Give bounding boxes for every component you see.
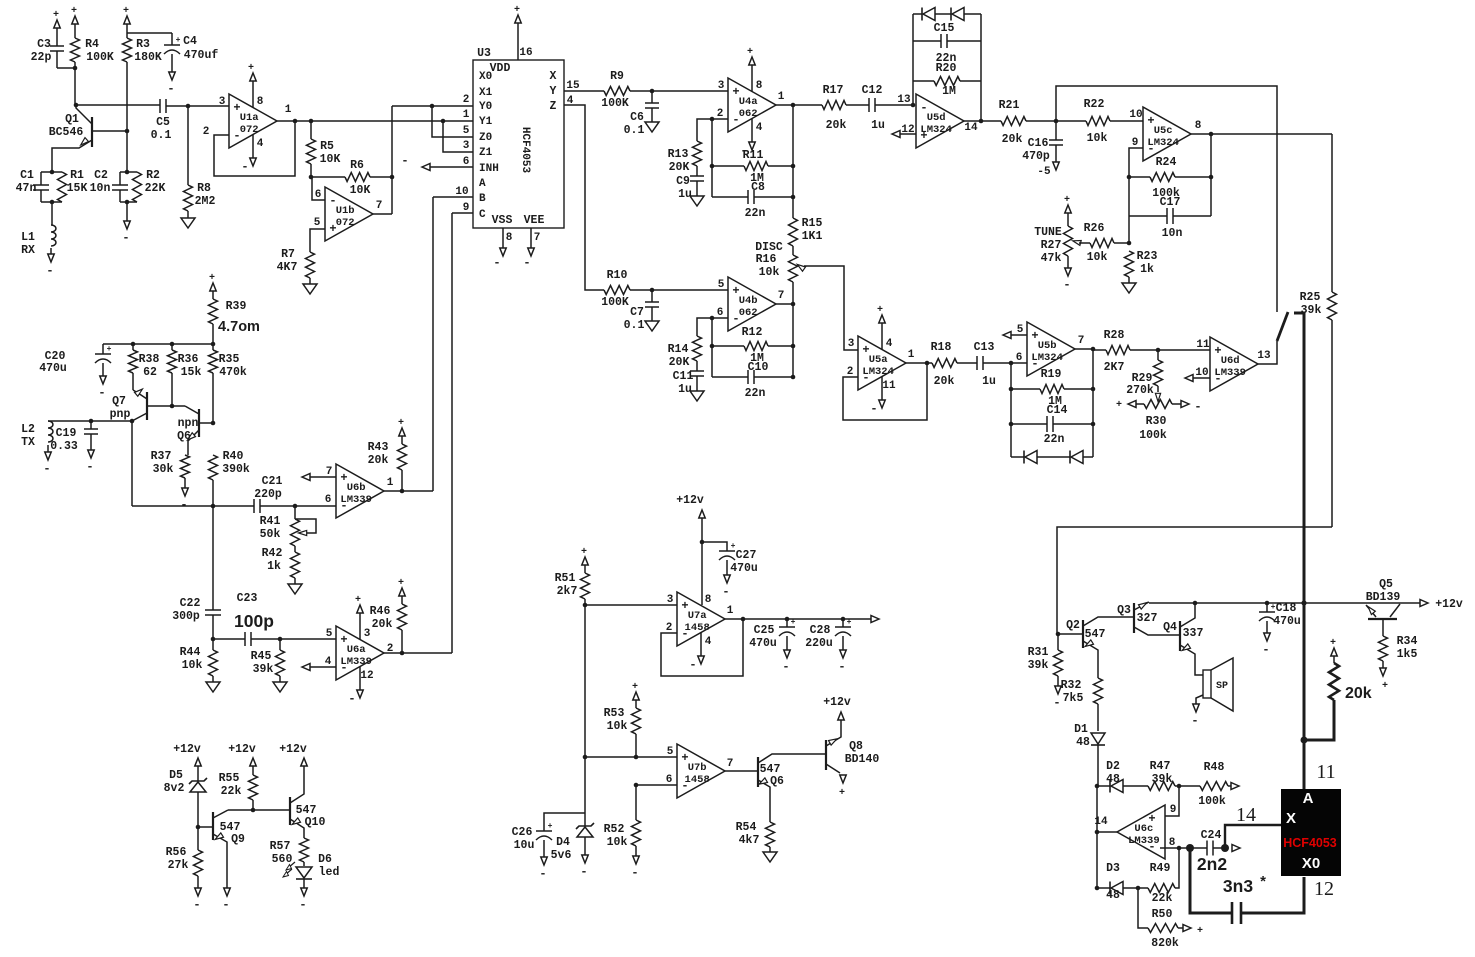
resistor R4	[72, 16, 78, 24]
svg-text:U6a: U6a	[347, 644, 367, 656]
svg-text:R39: R39	[226, 300, 247, 313]
svg-text:6: 6	[325, 494, 332, 506]
svg-text:3n3: 3n3	[1223, 876, 1253, 896]
resistor R38	[132, 344, 134, 350]
svg-text:-: -	[180, 498, 187, 512]
svg-text:7: 7	[1078, 335, 1085, 347]
transistor Q6 547	[757, 757, 759, 787]
wire Y1 line into U3	[443, 120, 473, 122]
svg-text:C19: C19	[56, 427, 77, 440]
wire U4a output column	[776, 104, 822, 106]
capacitor C9	[690, 175, 704, 177]
feedback box right	[980, 14, 982, 121]
diode D2	[1097, 785, 1110, 787]
svg-text:072: 072	[240, 124, 259, 136]
svg-text:+: +	[53, 10, 59, 21]
wire U7a feedback	[661, 619, 743, 676]
svg-text:14: 14	[1094, 816, 1108, 828]
svg-text:U5c: U5c	[1154, 125, 1173, 137]
svg-text:20K: 20K	[669, 161, 690, 174]
svg-text:R21: R21	[999, 99, 1020, 112]
svg-text:3: 3	[219, 96, 226, 108]
wire U5d output	[964, 120, 981, 122]
svg-text:1: 1	[285, 104, 292, 116]
svg-text:1458: 1458	[685, 622, 710, 634]
svg-text:470u: 470u	[730, 562, 758, 575]
capacitor C28	[842, 619, 844, 627]
svg-text:R37: R37	[151, 450, 172, 463]
svg-text:Q6: Q6	[770, 775, 784, 788]
svg-text:1: 1	[387, 477, 394, 489]
svg-text:7: 7	[778, 290, 785, 302]
resistor R57	[300, 838, 309, 862]
capacitor C22	[212, 506, 214, 610]
svg-text:R1: R1	[70, 169, 84, 182]
wire R47 junction to U6c pin9	[1160, 786, 1179, 816]
node R9/C6	[650, 89, 655, 94]
resistor R35	[212, 344, 214, 350]
svg-text:U1b: U1b	[336, 205, 355, 217]
wire U7b pin6	[636, 784, 677, 786]
svg-text:A: A	[479, 178, 486, 190]
svg-text:27k: 27k	[168, 859, 189, 872]
svg-text:Y1: Y1	[479, 116, 493, 128]
svg-text:15K: 15K	[67, 182, 88, 195]
feedback rails U5b	[1010, 363, 1012, 457]
svg-text:12: 12	[360, 670, 373, 682]
svg-text:C10: C10	[748, 361, 769, 374]
svg-text:R12: R12	[742, 326, 763, 339]
svg-text:100K: 100K	[601, 296, 629, 309]
svg-text:R51: R51	[555, 572, 576, 585]
resistor R31	[1057, 634, 1059, 650]
svg-text:R28: R28	[1104, 329, 1125, 342]
svg-text:5: 5	[326, 628, 333, 640]
svg-text:R41: R41	[260, 515, 281, 528]
svg-text:220u: 220u	[805, 637, 833, 650]
svg-text:-: -	[870, 402, 877, 416]
svg-text:39k: 39k	[253, 663, 274, 676]
wire U5b pin5 ref	[1011, 334, 1027, 336]
node output bold	[1186, 844, 1194, 852]
svg-text:R6: R6	[350, 159, 364, 172]
svg-text:10n: 10n	[90, 182, 111, 195]
svg-text:R14: R14	[668, 343, 689, 356]
wire B to U6b output	[433, 196, 473, 198]
svg-text:7: 7	[727, 758, 734, 770]
wire X pin to C24 node	[1225, 825, 1281, 848]
svg-text:13: 13	[897, 94, 911, 106]
svg-text:U4b: U4b	[739, 295, 758, 307]
svg-text:10n: 10n	[1162, 227, 1183, 240]
wire Q9 collector rail	[228, 809, 290, 811]
op-amp U5d	[916, 94, 964, 148]
wire Q2 base node	[1058, 633, 1083, 635]
svg-text:+: +	[847, 618, 852, 627]
resistor R50	[1138, 888, 1148, 928]
capacitor C17 feedback	[1128, 177, 1130, 216]
svg-text:U6c: U6c	[1134, 823, 1153, 835]
capacitor C15 feedback	[913, 40, 941, 42]
svg-text:2: 2	[666, 622, 673, 634]
svg-text:547: 547	[1085, 628, 1106, 641]
ground C2	[124, 221, 130, 229]
capacitor C4	[127, 32, 172, 34]
svg-text:0.1: 0.1	[624, 319, 645, 332]
svg-text:100K: 100K	[86, 51, 114, 64]
svg-text:15: 15	[566, 80, 580, 92]
svg-text:U1a: U1a	[240, 112, 260, 124]
resistor R25	[1331, 134, 1333, 292]
svg-text:C13: C13	[974, 341, 995, 354]
svg-text:R52: R52	[604, 823, 625, 836]
resistor R8	[187, 106, 189, 185]
svg-text:R18: R18	[931, 341, 952, 354]
svg-text:820k: 820k	[1151, 937, 1179, 950]
svg-text:5: 5	[667, 746, 674, 758]
svg-text:+: +	[632, 682, 638, 693]
pin 8 VSS	[502, 228, 504, 243]
svg-text:10k: 10k	[1087, 251, 1108, 264]
svg-text:-: -	[1194, 400, 1201, 414]
svg-text:-: -	[838, 660, 845, 674]
potentiometer R16	[789, 255, 798, 282]
op-amp U4b	[728, 277, 776, 331]
svg-text:6: 6	[1016, 352, 1023, 364]
capacitor C14 feedback	[1011, 423, 1047, 425]
svg-text:4: 4	[257, 138, 264, 150]
svg-text:-: -	[43, 462, 50, 476]
zener D5 8v2	[197, 772, 199, 781]
op-amp U6d	[1210, 337, 1258, 391]
op-amp U6c (mirrored)	[1117, 805, 1165, 859]
svg-text:4: 4	[886, 338, 893, 350]
svg-text:100k: 100k	[1139, 429, 1167, 442]
svg-text:R50: R50	[1152, 908, 1173, 921]
svg-text:1K1: 1K1	[802, 230, 823, 243]
svg-text:-: -	[348, 692, 355, 706]
wire U1b pin5	[310, 229, 325, 252]
ground Q9 emitter	[224, 888, 230, 896]
resistor R22	[1056, 120, 1086, 122]
svg-text:R19: R19	[1041, 368, 1062, 381]
svg-text:337: 337	[1183, 627, 1204, 640]
svg-text:D3: D3	[1106, 862, 1120, 875]
node C3/R4 junction	[73, 66, 78, 71]
IC HCF4053 black box	[1281, 789, 1341, 876]
svg-text:C4: C4	[183, 35, 197, 48]
svg-text:R44: R44	[180, 646, 201, 659]
svg-text:22K: 22K	[145, 182, 166, 195]
svg-text:1: 1	[778, 91, 785, 103]
resistor R7	[306, 252, 315, 278]
svg-text:48: 48	[1106, 773, 1120, 786]
svg-text:100K: 100K	[601, 97, 629, 110]
svg-text:6: 6	[717, 307, 724, 319]
svg-text:C14: C14	[1047, 404, 1068, 417]
capacitor C2 / resistor R2 parallel	[120, 171, 137, 173]
svg-text:C: C	[479, 209, 486, 221]
resistor R34	[1379, 636, 1388, 661]
svg-text:47n: 47n	[16, 182, 37, 195]
svg-text:062: 062	[739, 108, 758, 120]
capacitor C5	[159, 99, 161, 113]
svg-text:-: -	[1191, 714, 1198, 728]
wire U4b output	[776, 303, 793, 305]
svg-text:20k: 20k	[1345, 685, 1372, 702]
svg-text:1M: 1M	[942, 85, 956, 98]
svg-text:3: 3	[364, 628, 371, 640]
svg-text:20k: 20k	[372, 618, 393, 631]
svg-text:10k: 10k	[607, 720, 628, 733]
resistor R20 feedback	[913, 80, 934, 82]
svg-text:-: -	[1053, 696, 1060, 710]
resistor R54	[766, 822, 775, 847]
svg-text:+: +	[1382, 681, 1388, 692]
svg-text:5: 5	[1017, 324, 1024, 336]
svg-text:R2: R2	[146, 169, 160, 182]
wire U7a output	[725, 618, 871, 620]
wire U1b output to Y0	[373, 213, 392, 215]
svg-text:1: 1	[727, 605, 734, 617]
svg-text:+: +	[107, 345, 112, 354]
resistor R12 feedback	[712, 345, 744, 347]
wire R13 branch	[697, 119, 712, 141]
svg-text:R10: R10	[607, 269, 628, 282]
svg-text:C22: C22	[180, 597, 201, 610]
resistor R47	[1148, 782, 1175, 791]
resistor R40	[209, 455, 218, 480]
svg-text:2: 2	[717, 108, 724, 120]
svg-text:4: 4	[756, 122, 763, 134]
capacitor C10 feedback	[712, 376, 748, 378]
wire U6d output to switch	[1258, 341, 1277, 364]
svg-text:1458: 1458	[685, 774, 710, 786]
diode pair U5b feedback	[1011, 456, 1024, 458]
svg-text:Q1: Q1	[65, 113, 79, 126]
op-amp U4a	[728, 78, 776, 132]
svg-text:HCF4053: HCF4053	[519, 127, 531, 174]
op-amp U5b	[1027, 322, 1075, 376]
svg-text:D2: D2	[1106, 760, 1120, 773]
svg-text:R56: R56	[166, 846, 187, 859]
svg-text:X1: X1	[479, 87, 493, 99]
resistor R18	[932, 359, 957, 368]
svg-text:Z0: Z0	[479, 132, 492, 144]
svg-text:15k: 15k	[181, 366, 202, 379]
svg-text:2n2: 2n2	[1197, 854, 1227, 874]
svg-text:-: -	[782, 660, 789, 674]
resistor R49	[1148, 884, 1175, 893]
svg-text:7: 7	[376, 200, 383, 212]
transistor Q7 pnp	[146, 392, 148, 420]
resistor R13	[693, 141, 702, 166]
svg-text:C2: C2	[94, 169, 108, 182]
resistor R11 feedback	[712, 165, 744, 167]
svg-text:470k: 470k	[219, 366, 247, 379]
resistor R32	[1094, 678, 1103, 704]
svg-text:VEE: VEE	[524, 214, 545, 227]
svg-text:R53: R53	[604, 707, 625, 720]
op-amp U7a	[677, 592, 725, 646]
supply rail TX stage	[103, 343, 213, 345]
svg-text:4: 4	[325, 656, 332, 668]
svg-text:47k: 47k	[1041, 252, 1062, 265]
svg-text:R24: R24	[1156, 156, 1177, 169]
resistor R43	[399, 428, 405, 436]
svg-text:led: led	[319, 866, 340, 879]
svg-text:12: 12	[1314, 878, 1334, 900]
wire U4a pin2 feedback rail	[712, 119, 728, 197]
svg-text:R31: R31	[1028, 646, 1049, 659]
svg-text:1k: 1k	[267, 560, 281, 573]
svg-text:C5: C5	[156, 116, 170, 129]
resistor R10	[604, 286, 630, 295]
svg-text:2: 2	[847, 366, 854, 378]
svg-text:R27: R27	[1041, 239, 1062, 252]
capacitor C3	[54, 20, 60, 28]
wire Z0 branch	[432, 106, 473, 137]
svg-text:22n: 22n	[745, 207, 766, 220]
wire U1a feedback pin2	[214, 121, 295, 176]
wire U5a feedback box	[843, 363, 927, 420]
resistor R51	[582, 557, 588, 565]
svg-text:C6: C6	[630, 111, 644, 124]
svg-text:Q8: Q8	[849, 740, 863, 753]
svg-text:R13: R13	[668, 148, 689, 161]
wire R16 wiper to U5a	[804, 266, 858, 350]
resistor R36	[171, 344, 173, 350]
svg-text:-: -	[222, 898, 229, 912]
wire INH input	[430, 166, 473, 168]
svg-text:8: 8	[257, 96, 264, 108]
svg-text:180K: 180K	[134, 51, 162, 64]
svg-text:1u: 1u	[678, 188, 692, 201]
svg-text:R4: R4	[85, 38, 99, 51]
svg-text:+12v: +12v	[173, 743, 201, 756]
inductor L2 TX	[48, 420, 132, 422]
svg-text:5: 5	[718, 279, 725, 291]
svg-text:X: X	[550, 70, 557, 83]
svg-text:C24: C24	[1201, 829, 1222, 842]
svg-text:LM339: LM339	[1128, 835, 1160, 847]
capacitor C25	[786, 619, 788, 627]
svg-text:1: 1	[463, 109, 470, 121]
pin 7 VEE	[530, 228, 532, 243]
svg-text:D5: D5	[169, 769, 183, 782]
svg-text:1: 1	[908, 349, 915, 361]
svg-text:062: 062	[739, 307, 758, 319]
svg-text:C17: C17	[1160, 196, 1181, 209]
wire C to U6a output	[452, 212, 473, 214]
capacitor C6	[651, 91, 653, 103]
resistor R55	[252, 772, 254, 775]
wire U5a output	[906, 362, 932, 364]
svg-text:1u: 1u	[871, 119, 885, 132]
svg-text:LM339: LM339	[1214, 367, 1246, 379]
wire Q6 base	[199, 422, 213, 424]
svg-text:+: +	[355, 595, 361, 606]
svg-text:D4: D4	[556, 836, 570, 849]
svg-text:+: +	[248, 63, 254, 74]
svg-text:30k: 30k	[153, 463, 174, 476]
svg-text:R48: R48	[1204, 761, 1225, 774]
svg-text:Q3: Q3	[1117, 604, 1131, 617]
LED D6	[296, 867, 312, 878]
capacitor C11	[690, 370, 704, 372]
svg-text:7: 7	[326, 466, 333, 478]
svg-text:+: +	[398, 578, 404, 589]
wire U1b pin6	[312, 177, 325, 200]
collector rail	[76, 104, 160, 106]
svg-text:39k: 39k	[1028, 659, 1049, 672]
resistor R46	[399, 588, 405, 596]
potentiometer R30	[1157, 386, 1159, 392]
transistor Q10 547	[289, 797, 291, 825]
svg-text:TUNE: TUNE	[1034, 226, 1062, 239]
svg-text:22n: 22n	[936, 52, 957, 65]
svg-text:3: 3	[848, 338, 855, 350]
svg-text:48: 48	[1106, 889, 1120, 902]
svg-text:-: -	[539, 867, 546, 881]
svg-text:C9: C9	[676, 175, 690, 188]
op-amp U5a	[858, 336, 906, 390]
svg-text:3: 3	[667, 594, 674, 606]
resistor R37	[187, 452, 189, 455]
svg-text:1u: 1u	[678, 383, 692, 396]
svg-text:L1: L1	[21, 231, 35, 244]
resistor R29	[1157, 350, 1159, 360]
svg-text:11: 11	[1316, 761, 1335, 783]
svg-text:+: +	[747, 47, 753, 58]
svg-text:-: -	[299, 898, 306, 912]
svg-text:Q7: Q7	[112, 395, 126, 408]
resistor R17	[822, 101, 846, 110]
resistor R5	[310, 121, 312, 139]
wire to U7b pin5	[585, 756, 677, 758]
svg-text:6: 6	[315, 189, 322, 201]
svg-text:X: X	[1286, 810, 1296, 827]
svg-text:R57: R57	[270, 840, 291, 853]
svg-text:470p: 470p	[1022, 150, 1050, 163]
ground speaker	[1196, 695, 1203, 700]
resistor R21	[1001, 117, 1026, 126]
svg-text:U5d: U5d	[927, 112, 946, 124]
svg-text:+12v: +12v	[279, 743, 307, 756]
svg-text:R15: R15	[802, 217, 823, 230]
svg-text:10: 10	[1195, 367, 1208, 379]
resistor R39	[210, 283, 216, 291]
svg-text:X0: X0	[1302, 855, 1320, 872]
svg-text:RX: RX	[21, 244, 35, 257]
svg-text:5: 5	[314, 217, 321, 229]
svg-text:A: A	[1303, 790, 1314, 807]
node bold rail crossing	[1301, 600, 1306, 605]
svg-text:300p: 300p	[172, 610, 200, 623]
svg-text:R42: R42	[262, 547, 283, 560]
feedback box left	[912, 14, 914, 105]
svg-text:VDD: VDD	[490, 62, 511, 75]
svg-text:+: +	[839, 788, 845, 799]
svg-text:+: +	[514, 5, 520, 16]
svg-text:5: 5	[463, 125, 470, 137]
svg-text:+12v: +12v	[676, 494, 704, 507]
svg-text:LM324: LM324	[1147, 137, 1179, 149]
svg-text:LM339: LM339	[340, 656, 372, 668]
svg-text:Q2: Q2	[1066, 619, 1080, 632]
svg-text:39k: 39k	[1301, 304, 1322, 317]
svg-text:-: -	[193, 898, 200, 912]
